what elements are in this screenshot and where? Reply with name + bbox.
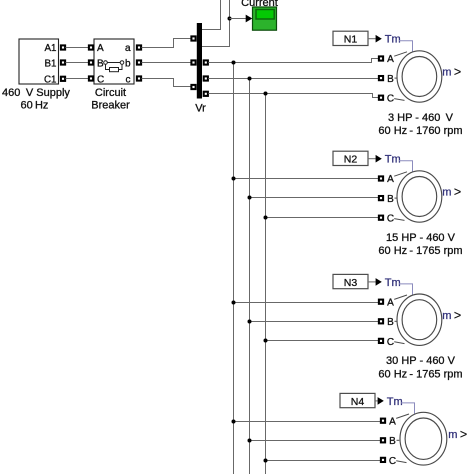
breaker input port A — [89, 45, 93, 49]
svg-text:A1: A1 — [45, 43, 57, 54]
motor3 body outer circle — [397, 294, 442, 345]
wire B1-B — [66, 62, 89, 64]
svg-text:>: > — [454, 65, 461, 79]
svg-text:A: A — [387, 174, 394, 185]
source output port B1 — [61, 60, 65, 64]
junction C1 — [264, 92, 268, 96]
svg-text:>: > — [454, 308, 461, 322]
constant block N4 — [340, 393, 375, 407]
constant block N2 — [333, 151, 368, 165]
svg-text:A: A — [387, 297, 394, 308]
motor3 input port B — [379, 319, 383, 323]
voltage source block 460V Supply — [19, 39, 59, 84]
bus output port C — [204, 92, 208, 96]
svg-text:Vr: Vr — [195, 103, 206, 115]
breaker output port b — [137, 60, 141, 64]
source output port C1 — [61, 77, 65, 81]
phase C distribution line — [265, 94, 267, 474]
motor3 stator lead C — [394, 342, 404, 344]
wire branch B to motor2 — [250, 197, 379, 199]
wire branch B to motor3 — [250, 321, 379, 323]
motor3 stator lead A — [394, 295, 407, 299]
motor1 stator lead C — [394, 99, 404, 101]
svg-text:15 HP - 460 V: 15 HP - 460 V — [386, 232, 456, 244]
junction B motor2 — [248, 196, 252, 200]
svg-text:Tm: Tm — [385, 34, 401, 46]
wire bus A to motor1 A — [208, 59, 378, 63]
motor3 Tm shaft line — [399, 284, 413, 295]
circuit breaker block — [94, 39, 134, 84]
motor3 input port A — [379, 300, 383, 304]
svg-text:Breaker: Breaker — [91, 100, 130, 112]
wire bus to top 2 / scope tap — [202, 0, 230, 47]
motor4 stator lead A — [396, 414, 409, 418]
wire branch C to motor4 — [266, 460, 381, 462]
motor3 body inner circle — [402, 300, 437, 340]
svg-text:A: A — [97, 43, 104, 54]
wire branch A to motor3 — [234, 302, 379, 304]
svg-text:B: B — [387, 194, 394, 205]
svg-text:460 V Supply: 460 V Supply — [2, 87, 70, 99]
bus input port 1 — [191, 36, 195, 40]
svg-text:60 Hz - 1760 rpm: 60 Hz - 1760 rpm — [378, 125, 462, 137]
motor3 input port C — [379, 339, 383, 343]
motor1 body inner circle — [402, 57, 437, 97]
svg-text:N2: N2 — [344, 154, 358, 166]
svg-text:m: m — [442, 67, 451, 79]
svg-text:b: b — [125, 58, 131, 69]
svg-text:30 HP - 460 V: 30 HP - 460 V — [386, 355, 456, 367]
junction A motor4 — [232, 420, 236, 424]
breaker output port c — [137, 76, 141, 80]
wire N2 to Tm — [368, 158, 376, 160]
svg-text:B: B — [387, 74, 394, 85]
motor3 stator lead B — [395, 320, 398, 322]
wire to Current scope — [230, 18, 247, 20]
junction A1 — [232, 61, 236, 65]
constant block N1 — [333, 31, 368, 45]
motor1 body outer circle — [397, 51, 442, 102]
svg-text:N3: N3 — [344, 277, 358, 289]
motor2 input port A — [379, 176, 383, 180]
motor4 input port C — [381, 458, 385, 462]
motor1 Tm shaft line — [399, 41, 413, 52]
junction C motor4 — [264, 459, 268, 463]
motor4 input port B — [381, 438, 385, 442]
phase B distribution line — [249, 79, 251, 474]
junction B motor4 — [248, 439, 252, 443]
svg-text:N1: N1 — [344, 34, 358, 46]
svg-text:B: B — [389, 436, 396, 447]
svg-text:C: C — [97, 75, 104, 86]
wire branch C to motor2 — [266, 217, 379, 219]
svg-text:C: C — [387, 94, 394, 105]
svg-text:C: C — [387, 337, 394, 348]
svg-text:m: m — [448, 429, 457, 441]
svg-text:Tm: Tm — [385, 154, 401, 166]
svg-text:m: m — [442, 310, 451, 322]
svg-text:Tm: Tm — [387, 396, 403, 408]
junction A motor2 — [232, 177, 236, 181]
svg-text:60 Hz: 60 Hz — [21, 100, 49, 112]
svg-text:a: a — [125, 43, 131, 54]
wire a to bus — [142, 39, 192, 48]
svg-text:Current: Current — [241, 0, 278, 9]
breaker switch icon — [104, 61, 124, 70]
source output port A1 — [61, 45, 65, 49]
wire N1 to Tm — [368, 38, 376, 40]
motor2 stator lead A — [394, 172, 407, 176]
motor4 body outer circle — [400, 412, 447, 465]
wire N3 to Tm — [368, 281, 376, 283]
wire branch A to motor4 — [234, 421, 381, 423]
junction scope tap — [228, 17, 232, 21]
wire c to bus — [142, 79, 192, 87]
svg-text:60 Hz - 1765 rpm: 60 Hz - 1765 rpm — [378, 368, 462, 380]
wire branch A to motor2 — [234, 178, 379, 180]
motor4 Tm shaft line — [401, 403, 415, 414]
scope block Current — [253, 7, 277, 30]
motor4 input port A — [381, 419, 385, 423]
motor4 body inner circle — [405, 418, 442, 459]
motor1 stator lead A — [394, 52, 407, 56]
motor1 input port C — [379, 96, 383, 100]
constant block N3 — [333, 274, 368, 288]
junction B motor3 — [248, 320, 252, 324]
junction B1 — [248, 77, 252, 81]
wire b to bus — [142, 62, 192, 64]
svg-text:B1: B1 — [45, 58, 57, 69]
wire A1-A — [66, 47, 89, 49]
junction C motor2 — [264, 216, 268, 220]
breaker input port C — [89, 76, 93, 80]
phase A distribution line — [233, 63, 235, 474]
svg-text:Tm: Tm — [385, 277, 401, 289]
svg-text:N4: N4 — [351, 396, 365, 408]
svg-text:B: B — [97, 58, 104, 69]
svg-text:A: A — [387, 54, 394, 65]
svg-text:c: c — [126, 75, 131, 86]
svg-text:C: C — [387, 214, 394, 225]
junction C motor3 — [264, 339, 268, 343]
svg-text:Circuit: Circuit — [95, 87, 126, 99]
bus output port B — [204, 76, 208, 80]
motor1 input port A — [379, 56, 383, 60]
svg-text:>: > — [460, 427, 467, 441]
motor1 stator lead B — [395, 77, 398, 79]
breaker snubber resistor — [110, 68, 119, 72]
wire bus B to motor1 B — [208, 78, 378, 80]
wire N4 to Tm — [375, 400, 378, 402]
breaker output port a — [137, 45, 141, 49]
svg-text:3 HP - 460 V: 3 HP - 460 V — [388, 112, 454, 124]
bus bar Vr — [197, 23, 202, 99]
wire branch B to motor4 — [250, 440, 381, 442]
svg-text:60 Hz - 1765 rpm: 60 Hz - 1765 rpm — [378, 245, 462, 257]
wire branch C to motor3 — [266, 340, 379, 342]
motor2 body outer circle — [397, 171, 442, 222]
bus input port 3 — [191, 85, 195, 89]
motor2 stator lead B — [395, 197, 398, 199]
wire C1-C — [66, 78, 89, 80]
svg-text:m: m — [442, 187, 451, 199]
svg-text:A: A — [389, 416, 396, 427]
motor2 stator lead C — [394, 219, 404, 221]
svg-text:>: > — [454, 185, 461, 199]
motor2 input port B — [379, 196, 383, 200]
motor4 stator lead C — [396, 461, 406, 463]
motor4 stator lead B — [397, 439, 400, 441]
svg-text:C: C — [389, 456, 396, 467]
motor2 input port C — [379, 216, 383, 220]
motor2 Tm shaft line — [399, 161, 413, 172]
junction A motor3 — [232, 301, 236, 305]
svg-text:B: B — [387, 317, 394, 328]
wire bus C to motor1 C — [208, 94, 378, 98]
bus output port A — [204, 60, 208, 64]
bus input port 2 — [191, 60, 195, 64]
motor2 body inner circle — [402, 177, 437, 217]
breaker input port B — [89, 60, 93, 64]
motor1 input port B — [379, 76, 383, 80]
wire bus to top 1 — [202, 0, 221, 30]
svg-text:C1: C1 — [44, 75, 57, 86]
